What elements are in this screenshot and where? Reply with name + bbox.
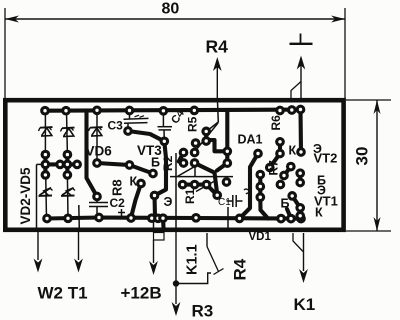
svg-text:R4: R4 [206, 37, 229, 57]
svg-text:Э: Э [164, 195, 173, 209]
svg-text:Б: Б [281, 197, 290, 211]
svg-text:К: К [289, 144, 297, 158]
svg-text:W2 T1: W2 T1 [38, 284, 88, 303]
svg-text:VD1: VD1 [249, 231, 272, 243]
svg-text:K1: K1 [294, 295, 316, 314]
svg-text:Б: Б [151, 156, 160, 170]
svg-text:C2: C2 [110, 196, 126, 210]
svg-text:80: 80 [162, 1, 180, 18]
svg-text:R2: R2 [161, 155, 175, 171]
svg-text:+12В: +12В [121, 284, 162, 303]
svg-text:С3: С3 [108, 119, 124, 133]
svg-text:VT2: VT2 [314, 151, 338, 166]
svg-text:R5: R5 [186, 116, 200, 132]
svg-text:R1: R1 [183, 188, 197, 204]
svg-text:К: К [130, 175, 138, 189]
svg-text:С1: С1 [218, 197, 231, 208]
svg-text:K1.1: K1.1 [185, 244, 201, 275]
svg-text:R6: R6 [269, 115, 283, 131]
svg-text:R8: R8 [110, 179, 125, 196]
svg-text:К: К [315, 206, 323, 220]
svg-text:DA1: DA1 [238, 133, 263, 147]
svg-text:R3: R3 [192, 302, 214, 320]
svg-text:R4: R4 [231, 258, 250, 280]
svg-text:30: 30 [353, 147, 372, 166]
svg-text:VD6: VD6 [86, 144, 113, 159]
svg-text:R7: R7 [267, 160, 281, 176]
svg-text:VD2-VD5: VD2-VD5 [18, 167, 33, 225]
